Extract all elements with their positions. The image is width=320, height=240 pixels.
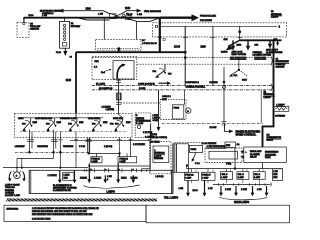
svg-text:L GN: L GN	[98, 14, 103, 16]
wire lock arrow 3	[247, 40, 249, 46]
wire S1 outputs pair 1	[29, 130, 32, 153]
svg-text:LAMPS: LAMPS	[154, 154, 162, 157]
node brace headlamps	[219, 197, 267, 200]
wire relay drop	[234, 148, 236, 169]
node ticks below fuse row	[192, 179, 260, 183]
node tick square inside	[155, 25, 157, 27]
node junction dot x224	[223, 81, 226, 84]
node relay left arrows	[240, 150, 244, 158]
svg-text:FXXTXR XXX DXXSXL XXX XXX XXXX: FXXTXR XXX DXXSXL XXX XXX XXXXX TX XXX, …	[32, 211, 87, 213]
svg-text:1 XXX: 1 XXX	[241, 189, 247, 191]
wire lamp arrow 1	[88, 163, 90, 180]
svg-text:S17/3 HEADLAMP: S17/3 HEADLAMP	[35, 117, 53, 120]
svg-text:1140: 1140	[201, 46, 207, 49]
node connector ticks on box top	[84, 169, 150, 172]
svg-text:S17/1 XXX: S17/1 XXX	[113, 118, 124, 120]
component fuse F14	[118, 157, 137, 163]
component V switch right	[238, 58, 240, 70]
node bracket band ends	[271, 84, 272, 91]
svg-text:8 AMP: 8 AMP	[120, 160, 127, 163]
svg-text:27.08M: 27.08M	[210, 127, 217, 129]
svg-text:LAMPS: LAMPS	[264, 96, 272, 99]
node brace lamps	[84, 185, 140, 190]
component notes box right	[146, 205, 290, 223]
svg-text:XXX XXXXX XXX: XXX XXXXX XXX	[230, 57, 247, 59]
node junction dot row1	[184, 56, 187, 59]
svg-text:AA: AA	[237, 143, 240, 146]
component rotary switch arc	[117, 65, 123, 79]
svg-text:1 XXXX: 1 XXXX	[94, 177, 102, 179]
node bracket y184 end	[270, 183, 271, 187]
svg-text:FUSE BOX LINK: FUSE BOX LINK	[200, 15, 216, 17]
component turn box inside	[63, 172, 74, 180]
wire stub bus to fuse strip	[64, 18, 66, 22]
svg-text:1 AMP: 1 AMP	[221, 176, 228, 179]
svg-text:2 XX XX XXX TXXX: 2 XX XX XXX TXXX	[32, 219, 51, 221]
svg-text:A XX: A XX	[107, 175, 112, 178]
node dots on distribution line	[28, 151, 31, 154]
node ticks on y184	[218, 183, 265, 186]
wire drop left to fusebox F1	[103, 18, 105, 39]
wire drop to lock fan	[239, 26, 241, 40]
svg-text:XXX: XXX	[64, 177, 69, 179]
component revisions box	[4, 205, 146, 221]
svg-text:XXXXX: XXXXX	[131, 177, 138, 179]
svg-text:30A: 30A	[234, 74, 238, 77]
svg-text:II 1.5M: II 1.5M	[139, 88, 146, 90]
wire thick right feed down	[263, 40, 274, 147]
svg-text:MARKER: MARKER	[5, 189, 15, 192]
component exterior lamp monitor dashed box	[150, 142, 171, 174]
svg-text:COMPRESS 2: COMPRESS 2	[186, 82, 200, 84]
wire dash-dot firewall line	[162, 122, 263, 124]
wire drop right to fusebox F1	[136, 22, 138, 40]
svg-text:FUSE 12: FUSE 12	[185, 174, 194, 176]
svg-text:SPEED CONTROL: SPEED CONTROL	[236, 134, 257, 137]
wire ignition crossing 1	[110, 13, 123, 18]
wire stub band to load level	[184, 90, 186, 105]
component switch illumination dashed box	[135, 113, 151, 138]
wire head arrow 1	[220, 186, 222, 193]
svg-text:FAILURE: FAILURE	[154, 157, 163, 160]
svg-text:1 THEFT: 1 THEFT	[276, 104, 285, 106]
component fuse F13	[91, 157, 102, 163]
component connector block X on wire	[116, 93, 121, 100]
svg-text:A/C XXXX: A/C XXXX	[150, 140, 160, 143]
svg-text:XXXX XXXX: XXXX XXXX	[255, 57, 267, 59]
component switch blade 5	[114, 111, 125, 131]
svg-text:CABLE 1: CABLE 1	[162, 95, 172, 98]
wire feed drops to fuse row	[187, 166, 278, 173]
svg-text:LAMPS FRONT: LAMPS FRONT	[5, 184, 21, 187]
node junction dot feed-17	[184, 51, 187, 54]
svg-text:X 4.08 XXXXXX: X 4.08 XXXXXX	[202, 142, 217, 145]
wire lamp arrow 4	[132, 175, 134, 180]
component lamp assembly front	[8, 170, 26, 182]
wire right drop x261	[260, 90, 262, 123]
svg-text:1140: 1140	[86, 7, 92, 10]
component switch inner box	[113, 61, 134, 79]
svg-text:FLASHER: FLASHER	[250, 153, 260, 156]
wire shield drop	[158, 90, 160, 128]
wire right drop x224	[223, 67, 225, 123]
node dot below monitor	[186, 164, 188, 166]
wire thick feed 15 circuit	[76, 49, 185, 114]
svg-text:30AT: 30AT	[242, 78, 248, 81]
wire S1 output x119	[118, 138, 120, 157]
svg-text:17.08: 17.08	[174, 46, 181, 49]
wire dashed stub right	[121, 102, 161, 104]
wire to speed control	[225, 123, 230, 131]
wire main bus 1140 top	[24, 17, 160, 19]
wire S1 outputs thick bus x88	[88, 138, 90, 154]
svg-text:51 ALTERNATOR X: 51 ALTERNATOR X	[53, 184, 72, 187]
svg-text:GR/SW/GE: GR/SW/GE	[37, 146, 48, 148]
node inner rect	[209, 151, 238, 159]
svg-text:BATTERY: BATTERY	[71, 25, 81, 28]
wire fusebox inner dashed	[98, 48, 140, 50]
node dot headlamp feed	[234, 167, 236, 169]
wire switch output down	[118, 78, 120, 111]
component headlamp relay box	[244, 147, 286, 163]
svg-text:XXX: XXX	[226, 145, 231, 147]
svg-text:L GN: L GN	[42, 15, 47, 17]
node band arrow	[159, 82, 168, 84]
wire stubs to fuses	[96, 153, 127, 156]
wire bus fork to ignition	[77, 18, 110, 20]
svg-text:(X LAMP): (X LAMP)	[96, 82, 105, 85]
svg-text:ANTI-THEFT: ANTI-THEFT	[266, 48, 279, 51]
component ignition switch connector box	[110, 14, 117, 19]
wire fuse feed line	[89, 152, 120, 154]
wire drop x60.3	[59, 152, 61, 167]
wire relay to feed stub	[262, 163, 264, 169]
node junction dot fusebox	[117, 47, 120, 50]
svg-text:RELAY: RELAY	[267, 139, 274, 142]
wire lock arrow 2	[232, 40, 234, 46]
svg-text:(1) LIGHTS 12: (1) LIGHTS 12	[99, 88, 113, 90]
svg-text:XXX XXXXXXX TXX PXXXXXXXXX XXX: XXX XXXXXXX TXX PXXXXXXXXX XXXXX XX XXXX…	[32, 214, 93, 216]
node hatched left edge	[29, 170, 32, 193]
node ticks above fuse row	[196, 169, 263, 172]
wire S1 output x130	[130, 138, 132, 157]
svg-text:114B: 114B	[237, 44, 242, 47]
svg-text:COMB 12 (PIN M): COMB 12 (PIN M)	[138, 83, 155, 85]
svg-text:8 AMP: 8 AMP	[202, 176, 209, 179]
wire fuse box inner line 2	[160, 25, 277, 27]
svg-text:FUEL INJECTION: FUEL INJECTION	[144, 11, 161, 13]
node dot fuse feed right	[118, 152, 120, 154]
wire drop to B5	[23, 17, 25, 22]
wire lock distribution bus	[240, 39, 282, 41]
svg-text:8 AMP: 8 AMP	[92, 160, 99, 163]
node dot fuse feed left	[88, 152, 90, 154]
node hatched right edge	[171, 170, 174, 193]
svg-text:1140: 1140	[125, 7, 131, 10]
svg-text:CXL D: CXL D	[254, 174, 261, 176]
svg-text:XXX: XXX	[95, 61, 100, 63]
wire drop x21.8	[21, 158, 23, 167]
wire box arrow b	[74, 171, 76, 181]
component fuse box E dashed top right	[153, 23, 287, 37]
wire lamp arrow 3	[117, 163, 119, 180]
component switch below cluster left	[157, 64, 165, 76]
wire lamp feed left	[17, 152, 54, 171]
component tall hatched box	[173, 144, 189, 173]
wire tail arrow 1	[187, 180, 189, 193]
svg-text:CENTRAL: CENTRAL	[253, 51, 264, 54]
component exterior lamp monitor box	[153, 146, 169, 163]
svg-text:AND LOCK: AND LOCK	[232, 51, 243, 54]
component switch blade below fuse	[193, 153, 196, 160]
svg-text:SUMMER CONTROL: SUMMER CONTROL	[186, 87, 207, 89]
node fuse strip cells	[62, 24, 66, 46]
wire distribution dash-dot line	[15, 151, 89, 153]
svg-text:ILLUMINATION XX: ILLUMINATION XX	[53, 189, 71, 192]
svg-text:21M: 21M	[224, 39, 228, 41]
component B5 sensor dashed box	[17, 23, 29, 38]
svg-text:HEAT SYSTEM: HEAT SYSTEM	[232, 53, 247, 56]
svg-text:COMBINATION: COMBINATION	[267, 136, 282, 139]
node dot y167 b	[16, 167, 18, 169]
svg-text:1 5M: 1 5M	[179, 188, 184, 190]
svg-text:1 (27.08): 1 (27.08)	[104, 146, 113, 148]
component load level inner box	[172, 105, 184, 119]
svg-text:CXL B: CXL B	[221, 174, 228, 176]
node connector ticks row	[27, 140, 152, 142]
node connector tick pairs mid	[90, 168, 137, 172]
wire line y167.6 left	[3, 167, 88, 169]
node ignition terminal circle	[123, 14, 125, 16]
wire S1 outputs pair 2	[53, 130, 55, 153]
svg-text:1 5 W-08 B1 05: 1 5 W-08 B1 05	[142, 43, 157, 45]
wire thick riser x160	[159, 18, 161, 53]
svg-text:XXXX: XXXX	[265, 157, 271, 159]
svg-text:1140: 1140	[66, 79, 72, 82]
svg-text:PL30: PL30	[56, 52, 62, 54]
svg-text:1 E XXXX: 1 E XXXX	[48, 175, 58, 177]
node terminal circle B5	[23, 22, 25, 24]
wire S1 linkage dash-dot	[20, 131, 128, 133]
node hatched cut strip	[8, 199, 157, 202]
svg-text:XXXXXXXX: XXXXXXXX	[265, 154, 277, 156]
svg-text:REVISIONS:: REVISIONS:	[7, 208, 19, 210]
component switch blade 1	[22, 118, 33, 131]
component ignition switch S2/1 box	[126, 16, 132, 20]
wire head arrow 2	[235, 186, 237, 193]
svg-text:K1M: K1M	[103, 122, 108, 124]
svg-text:A XXX XXXXXXXXX: A XXX XXXXXXXXX	[207, 145, 227, 148]
svg-text:8 AMP: 8 AMP	[185, 176, 192, 179]
node terminal circle x224	[222, 85, 225, 88]
svg-text:F8X RATING: F8X RATING	[200, 19, 212, 22]
svg-text:LAMPS: LAMPS	[153, 117, 161, 120]
node ticks below fuse box E	[158, 36, 243, 38]
component switch blade 2	[46, 118, 57, 131]
svg-text:1 XX: 1 XX	[257, 189, 262, 191]
component B1 fuse strip box	[60, 21, 70, 48]
component right tall box external	[273, 169, 283, 181]
svg-text:DISTRIB: DISTRIB	[210, 82, 219, 84]
svg-text:EXTERIOR: EXTERIOR	[154, 153, 165, 155]
component theft resistor box	[274, 106, 289, 111]
wire S1 output x76	[75, 132, 77, 168]
wire S1 internal bus	[20, 117, 103, 119]
svg-text:LR/SW/RT: LR/SW/RT	[15, 146, 26, 148]
svg-text:K1M: K1M	[33, 122, 38, 124]
svg-text:27.08: 27.08	[193, 190, 199, 192]
svg-text:TN/SW/GN: TN/SW/GN	[63, 146, 74, 148]
node ticks below connector	[116, 102, 121, 104]
node bracket row ends	[271, 57, 272, 66]
wire ignition crossing 2	[110, 13, 123, 18]
wire fuel injection arrow	[123, 11, 138, 14]
wire connector line y184.4	[213, 183, 270, 185]
svg-text:1 XX XXXXX: 1 XX XXXXX	[133, 144, 145, 146]
svg-text:XXXXX: XXXXX	[80, 177, 87, 179]
node connector ticks on switch wire	[116, 80, 121, 82]
wire output x147	[142, 124, 151, 172]
node ticks fusebox right	[141, 39, 146, 41]
svg-text:K1M: K1M	[57, 122, 62, 124]
wire dashed cluster row 0	[92, 57, 271, 59]
svg-text:L GN: L GN	[137, 14, 142, 16]
wire below fuse strip	[64, 48, 66, 51]
svg-text:RELAY: RELAY	[250, 156, 257, 159]
svg-text:FUSE 17: FUSE 17	[202, 174, 211, 176]
svg-text:K1M: K1M	[79, 122, 84, 124]
wire tail arrow 2	[204, 180, 206, 193]
svg-text:14B: 14B	[255, 44, 259, 47]
node junction dot in fuse box	[238, 30, 241, 33]
svg-text:EXTERNAL: EXTERNAL	[264, 93, 276, 96]
wire lock arrow 5	[277, 40, 279, 43]
component fusebox F1 dashed	[96, 39, 141, 50]
wire band bottom dash-dot	[92, 89, 271, 91]
component lighting switch S1 dashed box	[15, 113, 132, 137]
svg-text:STANDING LAMP: STANDING LAMP	[60, 117, 78, 120]
wire lamp arrow 2	[104, 175, 106, 180]
wire head arrow 4	[266, 186, 268, 193]
wire line y166 mid	[88, 165, 150, 167]
node arrow to electronic engine controls	[59, 9, 64, 13]
svg-text:S17/4: S17/4	[18, 117, 24, 120]
component dashed box right-center	[205, 148, 242, 163]
component switch blade 3	[68, 118, 79, 131]
svg-text:SENSOR: SENSOR	[30, 28, 39, 30]
svg-text:W-08: W-08	[29, 15, 35, 17]
svg-text:CXL D: CXL D	[238, 174, 245, 176]
wire lock arrow 4	[269, 40, 271, 44]
wire headlamp feed line	[187, 168, 284, 170]
node dot x60	[59, 167, 61, 169]
svg-text:XXXX (1 COMBO): XXXX (1 COMBO)	[150, 137, 167, 139]
svg-text:GAUGES: GAUGES	[276, 65, 286, 68]
svg-text:FUSE: FUSE	[191, 149, 197, 151]
svg-text:BRIGHTNESS: BRIGHTNESS	[265, 152, 279, 154]
svg-text:1 XXX: 1 XXX	[225, 189, 231, 191]
component fuse box small	[189, 145, 202, 152]
node ticks firewall crossing	[222, 122, 227, 125]
svg-text:1 EXX: 1 EXX	[64, 175, 70, 177]
wire head arrow 3	[252, 186, 254, 193]
svg-text:1 AMP: 1 AMP	[238, 176, 245, 179]
svg-text:ILLUMINATION: ILLUMINATION	[136, 119, 151, 122]
node dot y167 a	[21, 167, 23, 169]
component fuse boxes bottom row	[184, 172, 265, 181]
svg-text:LOCKING SYSTEM: LOCKING SYSTEM	[253, 55, 272, 57]
node square marker a	[163, 38, 165, 40]
wire upper engine-controls branch	[63, 11, 111, 14]
wire S1 output x60	[59, 132, 61, 153]
svg-text:FUSE: FUSE	[174, 108, 180, 110]
wire drop 1140b	[212, 26, 214, 85]
wire dash stub 142	[174, 142, 200, 144]
svg-text:COVERED: COVERED	[275, 116, 286, 118]
svg-text:HEADLAMP: HEADLAMP	[250, 150, 262, 153]
wire box arrow a	[59, 171, 61, 181]
component relay K box small	[225, 142, 236, 148]
svg-text:BACKUP LAMP: BACKUP LAMP	[5, 194, 21, 197]
svg-text:7 B 52: 7 B 52	[79, 146, 86, 148]
svg-text:RADIO: RADIO	[221, 50, 228, 53]
component harness center box	[29, 170, 173, 193]
svg-text:XXXX: XXXX	[121, 177, 127, 179]
wire lock arrow 1	[228, 40, 240, 46]
svg-text:1 AMP: 1 AMP	[254, 176, 261, 179]
component headlamp switch dashed box	[92, 57, 137, 80]
svg-text:1 (XXXX): 1 (XXXX)	[106, 109, 115, 111]
svg-text:1 (34.11): 1 (34.11)	[155, 175, 163, 178]
wire drop 17.08	[184, 26, 186, 85]
wire band top dash-dot	[92, 84, 271, 86]
svg-text:S17/2 XXXX: S17/2 XXXX	[88, 118, 100, 120]
svg-text:LAMPS: LAMPS	[107, 190, 116, 193]
svg-text:1 EX: 1 EX	[273, 171, 278, 173]
wire ignition diagonal to bus	[121, 17, 160, 22]
node arrow PL30 down	[63, 51, 67, 56]
svg-text:TAIL LAMPS: TAIL LAMPS	[164, 197, 179, 200]
svg-text:1 XX GRABLE XXPXGT SELECTING: 1 XX GRABLE XXPXGT SELECTING XXX RADIATO…	[32, 207, 99, 210]
component switch blade 4	[91, 118, 102, 131]
svg-text:HEADLAMPS: HEADLAMPS	[234, 201, 250, 204]
wire connector row line	[70, 140, 150, 142]
svg-text:XXX: XXX	[273, 174, 278, 176]
node small lamp circle	[137, 125, 140, 128]
wire dashed cluster row 2	[137, 63, 271, 65]
svg-text:1 XX: 1 XX	[208, 188, 213, 190]
svg-text:1 LAMP: 1 LAMP	[136, 122, 144, 125]
component load level dashed box	[160, 99, 186, 119]
node arrowhead fuel injection	[137, 9, 142, 13]
svg-text:K1M: K1M	[126, 122, 131, 124]
node bus arrowhead to fuse box link	[192, 14, 200, 21]
node motor circle G	[186, 108, 191, 113]
svg-text:LAMPS: LAMPS	[271, 15, 279, 18]
svg-text:XXX: XXX	[273, 177, 278, 179]
wire S1 feed from 1140	[75, 113, 77, 117]
